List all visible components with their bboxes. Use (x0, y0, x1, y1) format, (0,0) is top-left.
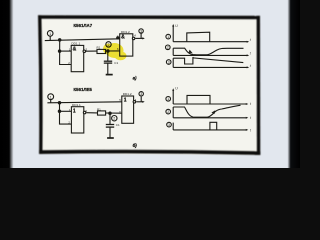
svg-text:3: 3 (168, 60, 170, 64)
output wire with arrow (135, 37, 143, 39)
pin numbers gate2 (119, 98, 136, 114)
svg-text:DD1.2: DD1.2 (123, 92, 132, 96)
svg-text:К561ЛЕ5: К561ЛЕ5 (74, 87, 93, 92)
gate DD1.2 body (120, 34, 133, 56)
arrowhead on decay (189, 50, 193, 54)
trace 1 baseline with arrow (173, 103, 247, 105)
svg-text:&: & (121, 35, 125, 41)
trace 3 axis tick (172, 123, 174, 130)
main input wire (47, 102, 121, 103)
svg-text:3: 3 (140, 29, 142, 33)
trace 3 signal (173, 57, 243, 64)
op gate DD1.1 body (71, 45, 84, 71)
capacitor C1 plates (104, 60, 112, 62)
panel frame right (257, 16, 261, 155)
vertical branch to DD1.1 inputs (60, 103, 72, 124)
ground (107, 137, 114, 139)
capacitor C1 plates (106, 124, 114, 126)
wire gate1 output to R1 (86, 50, 98, 52)
svg-text:1: 1 (73, 108, 76, 114)
junction on input wire (58, 102, 60, 104)
svg-text:&: & (73, 46, 77, 52)
junction at gate1 top input (58, 110, 60, 112)
tick node1 to wire (49, 36, 51, 40)
node label 2 (166, 109, 171, 114)
U axis (172, 90, 174, 104)
node 3 terminal (139, 92, 143, 96)
node 2 junction (107, 50, 109, 52)
trace 3 axis tick (172, 58, 174, 67)
node 2 terminal circle (106, 42, 111, 47)
node 2 junction (109, 112, 111, 114)
svg-text:1: 1 (49, 32, 51, 36)
gate DD1.1 body (71, 107, 83, 133)
wire C1 to ground (107, 63, 109, 74)
wire node2 down to C1 (107, 51, 109, 61)
wire to gate1 top input (60, 50, 72, 52)
svg-text:а): а) (133, 75, 137, 80)
output wire with arrow (136, 101, 143, 103)
junction blob at gate2 top input (117, 37, 119, 39)
svg-text:2: 2 (113, 117, 115, 121)
trace 3 baseline with arrow (173, 66, 248, 68)
node label 1 (166, 34, 171, 39)
svg-text:R1: R1 (97, 46, 101, 50)
trace 1 pulse (187, 32, 210, 42)
wire vertical branch to DD1.1 inputs (60, 40, 72, 65)
node 2 terminal circle (112, 116, 117, 121)
wire R1 to node 2 (106, 112, 122, 114)
svg-text:C1: C1 (114, 61, 118, 65)
gate2 output inversion bubble (132, 37, 135, 40)
svg-text:DD1.1: DD1.1 (71, 42, 80, 46)
svg-text:2: 2 (167, 110, 169, 114)
svg-text:2: 2 (167, 46, 169, 50)
node 1 terminal (48, 94, 54, 100)
wire gate1 output to R1 (86, 112, 97, 114)
gate2 output inversion bubble (133, 101, 136, 104)
U axis (172, 25, 174, 42)
tick to node 3 (140, 33, 142, 38)
trace 2 baseline with arrow (173, 54, 248, 56)
resistor R1 (98, 111, 106, 115)
trace 2 axis tick (172, 107, 174, 118)
gate DD1.2 body (122, 96, 134, 123)
main input wire (45, 39, 120, 41)
left black photo edge (0, 0, 14, 168)
wire C1 to ground (109, 127, 111, 138)
resistor R1 (97, 49, 106, 53)
node label 3 (166, 60, 171, 65)
gate1 output inversion bubble (83, 50, 86, 53)
trace 2 baseline with arrow (173, 117, 247, 119)
svg-text:3: 3 (168, 123, 170, 127)
blue page (0, 0, 300, 168)
panel frame bottom (39, 150, 260, 155)
trace 1 baseline with arrow (173, 41, 248, 43)
node label 3 (167, 122, 172, 127)
svg-text:R1: R1 (97, 108, 101, 112)
pin numbers gate1 (68, 48, 87, 65)
trace 2 signal (173, 105, 240, 117)
wire to gate1 top input (60, 110, 72, 112)
right black photo edge (288, 0, 301, 168)
trace 2 signal (173, 48, 243, 55)
tick node1 to wire (50, 100, 52, 103)
svg-text:1: 1 (167, 35, 169, 39)
svg-text:1: 1 (124, 98, 127, 104)
node 1 terminal (47, 31, 53, 37)
svg-text:C1: C1 (116, 123, 120, 127)
trace 1 pulse (187, 95, 210, 104)
gate1 output inversion bubble (83, 111, 86, 114)
junction at gate1 top input (58, 50, 60, 52)
svg-text:К561ЛА7: К561ЛА7 (74, 23, 93, 28)
node label 1 (166, 97, 171, 102)
panel frame top (38, 15, 260, 19)
node 3 terminal (139, 29, 143, 33)
junction on input wire (59, 39, 61, 41)
svg-text:DD1.1: DD1.1 (72, 103, 81, 107)
arrowhead on rise (211, 110, 215, 114)
panel frame left (38, 15, 43, 154)
svg-text:1: 1 (50, 95, 52, 99)
pin numbers gate2 (117, 33, 136, 51)
trace 2 axis tick (172, 48, 174, 55)
svg-text:DD1.2: DD1.2 (121, 30, 130, 34)
trace 3 pulse (210, 122, 217, 130)
wire node2 down to C1 (109, 113, 111, 124)
white panel (38, 15, 260, 155)
svg-text:1: 1 (167, 97, 169, 101)
ground (106, 74, 113, 76)
tick to node 3 (140, 97, 142, 102)
yellow highlighter blob over node 2 (103, 43, 127, 60)
node label 2 (166, 45, 171, 50)
pin numbers gate1 (68, 108, 87, 125)
svg-text:б): б) (133, 143, 138, 148)
svg-text:3: 3 (140, 92, 142, 96)
wire R1 to node 2 (106, 50, 120, 52)
trace 3 baseline with arrow (173, 129, 247, 131)
